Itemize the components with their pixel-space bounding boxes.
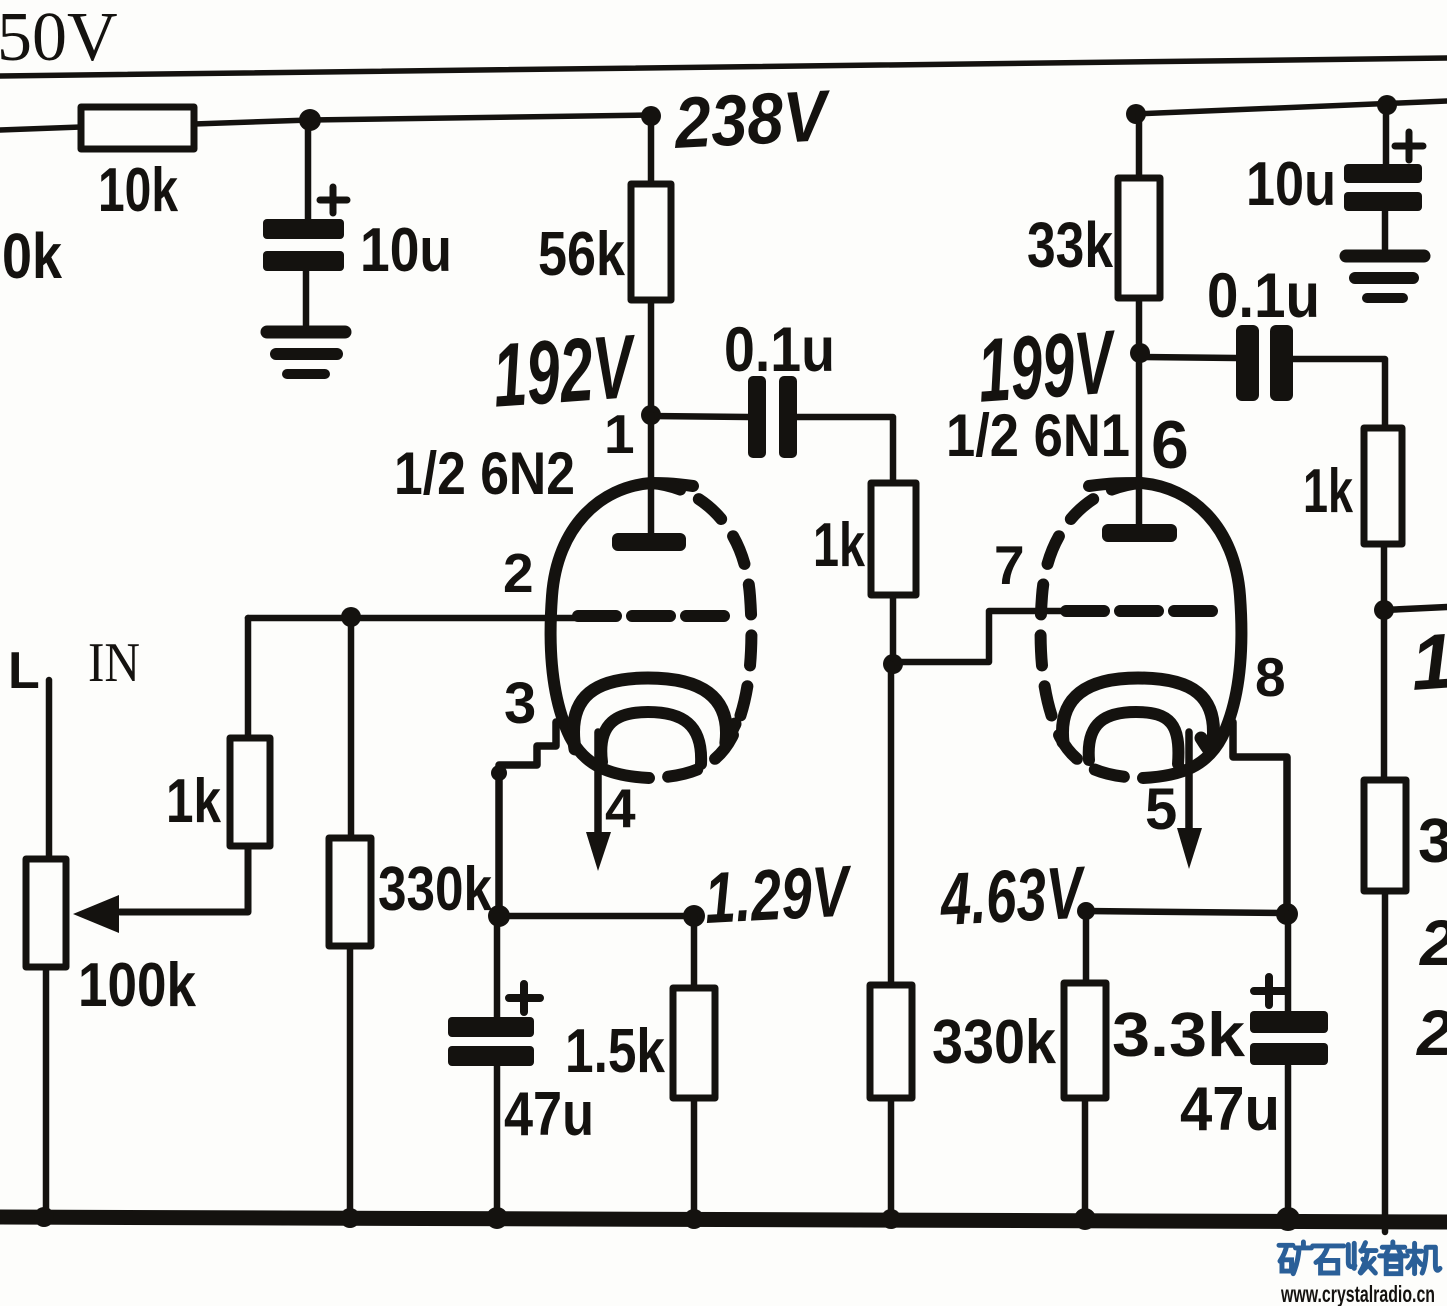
svg-text:4.63V: 4.63V (937, 850, 1089, 941)
tube V2 cathode outer arc (1062, 678, 1213, 751)
svg-text:330k: 330k (932, 1008, 1056, 1077)
wire input L (46, 680, 53, 859)
svg-text:10k: 10k (98, 156, 178, 225)
wire 10u to ground (303, 271, 310, 325)
wire V1 pin1 to plate (648, 415, 655, 533)
node 238V (641, 106, 661, 126)
wire 33k top (1136, 114, 1143, 178)
wire 47u left to ground rail (494, 1066, 501, 1218)
arrow pot wiper head (73, 895, 119, 933)
capacitor C 47u left plus (509, 984, 540, 1012)
node plate V1 (641, 405, 661, 425)
wire V2 pin8 cathode stepped (1233, 722, 1287, 914)
svg-text:10u: 10u (1246, 150, 1336, 219)
arrow V1 pin4 (586, 832, 611, 871)
wire lower right resistor to rail (1382, 891, 1389, 1232)
capacitor C 10u left plus sign (320, 187, 347, 213)
tube V1 heater inner arc (601, 712, 701, 764)
wire 3.3k to ground rail (1082, 1098, 1089, 1218)
svg-text:100k: 100k (78, 951, 196, 1020)
wire 1k input to grid line (245, 618, 252, 738)
capacitor C 10u right plates (1344, 164, 1422, 183)
node ground 1.5k (684, 1209, 704, 1229)
svg-text:50V: 50V (0, 0, 118, 76)
svg-text:8: 8 (1255, 646, 1286, 708)
node pin3 corner (491, 765, 507, 781)
wire 47u left top (494, 916, 501, 1017)
resistor R 1.5k (673, 988, 715, 1098)
wire B+ right rail (1134, 101, 1447, 114)
svg-text:2: 2 (503, 542, 534, 604)
node ground 330k left (340, 1208, 360, 1228)
node cathode V1 (488, 905, 510, 927)
node ground 100k (34, 1207, 54, 1227)
watermark crystalradio logo kuang (1279, 1242, 1311, 1274)
resistor R 3.3k (1064, 983, 1106, 1098)
wire output node right (1384, 607, 1447, 610)
wire 1k output to node (1381, 544, 1388, 610)
svg-text:1k: 1k (1303, 457, 1353, 526)
wire 33k to 199V node (1136, 298, 1143, 353)
node grid V2 (883, 654, 903, 674)
svg-text:13: 13 (1408, 613, 1447, 707)
wire 199V to output cap (1140, 357, 1236, 358)
resistor R 56k (631, 184, 671, 300)
watermark crystalradio logo shi (1313, 1246, 1344, 1273)
watermark crystalradio logo shou (1348, 1243, 1376, 1273)
wire 47u right to ground rail (1285, 1066, 1292, 1218)
wire 330k right to ground rail (888, 1098, 895, 1218)
arrow V2 pin5 (1177, 828, 1202, 869)
wire plate node to coupling cap (651, 416, 748, 417)
node 33k top (1126, 104, 1146, 124)
resistor R 330k right (870, 985, 912, 1098)
svg-text:33k: 33k (1027, 209, 1113, 281)
tube V1 grid dashes (578, 610, 728, 622)
wire top supply rail (0, 58, 1447, 76)
svg-text:330k: 330k (378, 855, 492, 924)
wire grid node to V2 grid (893, 611, 1066, 662)
tube V2 envelope dashed left (1041, 483, 1141, 778)
node ground 3.3k (1074, 1208, 1096, 1230)
tube V1 plate bar (612, 533, 686, 551)
wire pot wiper (120, 846, 248, 912)
wire V2 pin5 heater lead (1185, 732, 1193, 831)
svg-text:30k: 30k (0, 220, 62, 292)
svg-text:2: 2 (1419, 907, 1447, 979)
watermark crystalradio logo yin (1380, 1242, 1408, 1274)
resistor R 1k input (230, 738, 270, 846)
tube V1 envelope dashed right (651, 483, 751, 778)
wire cathode node to 1.5k (499, 913, 694, 920)
svg-text:www.crystalradio.cn: www.crystalradio.cn (1280, 1281, 1435, 1306)
wire cathode V2 horizontal (1086, 911, 1287, 913)
svg-text:199V: 199V (975, 312, 1121, 421)
svg-text:L: L (8, 642, 40, 700)
ground symbol right (1346, 250, 1424, 263)
wire down to 10u filter cap (305, 120, 312, 219)
wire grid node down to 330k right (888, 664, 895, 985)
svg-text:3.3k: 3.3k (1112, 1001, 1246, 1070)
node filter cap junction (299, 109, 321, 131)
tube V2 envelope solid right (1089, 483, 1241, 778)
svg-text:47u: 47u (504, 1080, 594, 1149)
tube V1 envelope solid left (551, 483, 693, 778)
capacitor C 47u left plates (448, 1017, 534, 1037)
svg-text:47u: 47u (1180, 1075, 1280, 1144)
svg-text:1k: 1k (166, 767, 221, 836)
node ground 47u left (486, 1207, 508, 1229)
potentiometer R 100k body (26, 859, 66, 967)
svg-text:238V: 238V (671, 76, 834, 164)
svg-text:6: 6 (1151, 407, 1189, 483)
node 1.5k top (683, 905, 705, 927)
wire 1k to grid node (890, 595, 897, 664)
capacitor C 0.1u coupling 1 plates (748, 376, 766, 458)
tube V2 grid dashes (1066, 605, 1216, 617)
ground symbol left (267, 326, 345, 339)
resistor R 1k grid stopper (871, 483, 916, 595)
svg-text:10u: 10u (360, 216, 452, 285)
capacitor C 0.1u output plates (1236, 325, 1259, 401)
node output (1374, 600, 1394, 620)
wire 330k left down (348, 617, 355, 838)
svg-text:4: 4 (605, 777, 636, 839)
svg-text:1k: 1k (813, 511, 865, 580)
resistor R 1k output (1364, 428, 1402, 544)
node 10u right top (1377, 95, 1397, 115)
wire V1 pin3 cathode stepped (499, 722, 556, 916)
capacitor C 10u left plates (263, 219, 344, 239)
tube V2 heater inner arc (1089, 712, 1179, 764)
wire 330k left to ground rail (347, 946, 354, 1218)
tube V2 plate bar (1102, 524, 1177, 542)
wire V1 pin4 heater lead (594, 732, 602, 834)
wire 10u right top (1383, 105, 1390, 164)
tube V1 cathode outer arc (573, 678, 735, 749)
svg-text:3: 3 (1418, 807, 1447, 876)
resistor R lower right (1364, 780, 1406, 891)
wire 1.5k top (691, 916, 698, 988)
svg-text:1.29V: 1.29V (703, 851, 856, 939)
node 199V (1130, 343, 1150, 363)
resistor R 10k (81, 107, 194, 149)
capacitor C 10u right plus (1395, 132, 1423, 160)
svg-text:56k: 56k (538, 220, 625, 289)
capacitor C 47u right plus (1254, 977, 1285, 1005)
wire ground bus (0, 1217, 1447, 1222)
svg-text:IN: IN (88, 632, 140, 694)
node cathode V2 left (1077, 902, 1095, 920)
capacitor C 47u right plates (1250, 1011, 1328, 1033)
wire 1.5k to ground rail (691, 1098, 698, 1218)
wire 10u right to ground (1382, 211, 1389, 249)
resistor R 330k left (329, 838, 371, 946)
svg-text:1.5k: 1.5k (565, 1017, 665, 1086)
wire V2 pin6 to plate (1136, 353, 1143, 524)
resistor R 33k (1118, 178, 1160, 298)
node ground 47u right (1276, 1207, 1300, 1231)
svg-text:2: 2 (1416, 997, 1447, 1069)
svg-text:1: 1 (604, 403, 635, 465)
svg-text:0.1u: 0.1u (724, 315, 835, 385)
wire B+ left rail into 10k (0, 127, 81, 130)
wire 10k to 238V node (194, 115, 651, 124)
wire 3.3k top (1083, 911, 1090, 983)
wire output node down (1381, 610, 1388, 780)
svg-text:5: 5 (1145, 777, 1177, 842)
wire 238V to 56k (648, 116, 655, 184)
node cathode V2 right (1276, 903, 1298, 925)
svg-text:7: 7 (994, 534, 1025, 596)
wire 56k to plate node (648, 300, 655, 415)
svg-text:0.1u: 0.1u (1207, 261, 1320, 331)
wire 100k to ground rail (43, 967, 50, 1218)
wire V1 grid entry (248, 615, 575, 622)
svg-text:1/2 6N2: 1/2 6N2 (394, 440, 575, 507)
wire output cap to 1k (1293, 359, 1385, 428)
svg-text:3: 3 (504, 671, 536, 736)
node ground 330k right (881, 1209, 901, 1229)
wire 47u right top (1285, 914, 1292, 1011)
node grid V1 junction (341, 607, 361, 627)
watermark crystalradio logo ji (1408, 1243, 1440, 1273)
wire coupling cap to grid stopper (797, 417, 893, 483)
